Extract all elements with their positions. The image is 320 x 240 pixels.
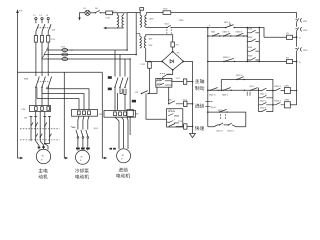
coil KM2 (reverse contactor) (285, 99, 297, 108)
svg-text:FR1: FR1 (22, 108, 27, 111)
wire rail G (jog loop) (208, 122, 246, 133)
svg-text:SQ1-A: SQ1-A (209, 94, 216, 97)
wire bridge DC- down (167, 70, 173, 75)
wire T3 bottom to bridge left (146, 48, 162, 61)
svg-text:SQ1-2: SQ1-2 (260, 93, 267, 96)
svg-text:b: b (299, 61, 301, 64)
transformer T2 (control) (140, 8, 154, 28)
contactor KM1 main contacts (24, 77, 52, 88)
switch SA2 (lamp switch) (90, 7, 106, 13)
contact KM1 (self-hold) (247, 27, 259, 32)
contact KS (speed relay) (135, 91, 157, 95)
svg-text:3~: 3~ (80, 159, 83, 162)
clutch YC3 (rapid) (178, 120, 193, 129)
svg-text:KM1: KM1 (157, 78, 162, 81)
svg-text:SA1-2: SA1-2 (168, 109, 175, 112)
wire rail C (208, 61, 297, 63)
wire ladder left rail (207, 28, 209, 127)
svg-text:FR2: FR2 (303, 29, 308, 32)
svg-text:2: 2 (222, 122, 224, 125)
wire bridge DC+ to clutch bus (183, 62, 192, 134)
svg-text:36V: 36V (148, 38, 152, 41)
svg-text:FU2: FU2 (61, 45, 66, 48)
wire box bottom to feed branch (168, 87, 170, 104)
svg-text:KS: KS (135, 91, 138, 94)
coil KM1 (forward contactor) (285, 84, 298, 93)
contact KM2 (self-hold) (247, 36, 259, 41)
fuse FU3 (clutch circuit fuse) (141, 62, 152, 94)
svg-text:VC: VC (177, 51, 180, 54)
contact KM3-2 (rail C) (223, 56, 235, 62)
relay contact FR1 (thermal NC) (295, 18, 308, 23)
rectifier bridge VC (161, 51, 184, 71)
ground (clutch circuit) (190, 134, 196, 138)
svg-text:KM1-4: KM1-4 (274, 100, 281, 103)
svg-text:FR3: FR3 (303, 49, 308, 52)
svg-text:SQ3: SQ3 (218, 109, 223, 112)
switch SQ1 (door interlock, on control rail) (165, 23, 208, 34)
fuse FU5 (control fuse) (163, 8, 171, 15)
thermal relay FR3 heater box (104, 111, 136, 118)
wire resistor drop (129, 59, 131, 135)
svg-text:EL: EL (84, 7, 87, 10)
svg-text:SA: SA (167, 121, 170, 124)
ground (lamp circuit) (78, 13, 85, 21)
svg-text:主电: 主电 (38, 168, 48, 175)
svg-text:KM1: KM1 (248, 27, 253, 30)
contact KM1-3 (222, 31, 231, 37)
svg-text:SQ-1: SQ-1 (250, 85, 256, 88)
wire T2 secondary to control rail (146, 27, 166, 29)
wire rail D (221, 80, 273, 112)
svg-text:FU: FU (176, 43, 179, 46)
svg-text:KM2-4: KM2-4 (274, 85, 281, 88)
clutch YC2 (feed) (183, 98, 194, 106)
PE distribution wire (18, 71, 103, 73)
svg-text:KM2: KM2 (157, 82, 162, 85)
wire FR2 to switch (78, 116, 89, 129)
wire three-phase branch lines (42, 47, 137, 59)
relay contact FR3 (thermal NC) (295, 47, 308, 52)
wire top bus (117, 12, 140, 14)
svg-text:SQ2-1: SQ2-1 (260, 100, 267, 103)
wire PE drop to M2 (64, 72, 67, 158)
svg-text:SB1-2: SB1-2 (224, 21, 231, 24)
svg-text:快速: 快速 (195, 125, 205, 132)
svg-text:动机: 动机 (38, 174, 48, 181)
svg-text:R1: R1 (136, 112, 140, 115)
contact SB4 (rail E with linkage) (244, 85, 258, 96)
svg-text:电动机: 电动机 (116, 173, 131, 180)
wire phase verticals to KM1 (36, 42, 48, 76)
svg-text:KM2: KM2 (248, 36, 253, 39)
svg-text:QS: QS (52, 29, 56, 32)
svg-text:主轴: 主轴 (195, 78, 205, 85)
contact SB3 (rail E) (222, 88, 232, 97)
svg-text:PE: PE (20, 10, 23, 13)
svg-text:FU: FU (286, 56, 289, 59)
svg-text:KM2-3: KM2-3 (235, 31, 242, 34)
svg-text:进给: 进给 (118, 167, 128, 174)
wire rail F (208, 112, 246, 127)
svg-text:24V: 24V (148, 44, 152, 47)
contact SQ2-A (rail D) (236, 74, 245, 80)
motor M2 (76, 149, 90, 164)
contact SQ1-A (rail E) (209, 88, 219, 97)
svg-text:220V: 220V (179, 19, 185, 22)
wire drops to M3 contactor (115, 50, 125, 77)
limit switch column (SQ contacts) (259, 88, 273, 112)
svg-text:3~: 3~ (41, 158, 44, 161)
fuse FU2 (three barrel fuses) (61, 45, 74, 60)
ground arrow (T1 secondary) (103, 27, 123, 29)
svg-text:M: M (81, 156, 83, 159)
contact SA1-1 (rapid) (167, 121, 184, 126)
svg-text:SQ1: SQ1 (165, 23, 170, 26)
contact KM2-3 (235, 31, 244, 37)
svg-text:FU3: FU3 (141, 63, 146, 66)
svg-text:KM1: KM1 (24, 78, 29, 81)
svg-text:SQ2-3: SQ2-3 (227, 129, 234, 132)
svg-text:KM2: KM2 (248, 55, 253, 58)
fuse FU6 (rectifier AC fuse) (171, 42, 179, 47)
svg-text:SA: SA (95, 7, 98, 10)
svg-text:KM2: KM2 (285, 99, 290, 102)
node L1 terminal (33, 14, 37, 20)
contact KM1-4 (272, 100, 284, 106)
fuse FU7 (286, 32, 293, 40)
svg-text:1: 1 (174, 118, 176, 121)
wire interlock column rails (247, 28, 259, 62)
fuse FU1 (three fuses) (34, 36, 55, 43)
wire rail D drop (220, 80, 222, 91)
svg-text:FR1: FR1 (303, 20, 308, 23)
reversing switch SA (M1 direction, dashed linkage) (20, 112, 60, 145)
svg-text:0: 0 (299, 37, 301, 40)
svg-text:电动机: 电动机 (75, 174, 90, 181)
wire KM1 to FR1 (36, 87, 48, 106)
switch QS2 (cooling pump plug switch) (71, 126, 99, 149)
svg-text:冷却泵: 冷却泵 (75, 168, 90, 175)
wire T3 secondary top to bridge fuse (146, 35, 173, 42)
svg-text:制动: 制动 (195, 85, 205, 92)
svg-text:FU5: FU5 (163, 8, 168, 11)
button SB2 (211, 31, 221, 37)
svg-text:KM1: KM1 (248, 46, 253, 49)
wire cascade to M2 contactor (37, 89, 89, 110)
fuse FU4 (106, 11, 113, 19)
svg-text:FR2: FR2 (99, 113, 104, 116)
wire verticals from top bus (127, 13, 136, 55)
svg-text:YC3: YC3 (178, 120, 183, 123)
wire rail E (208, 89, 259, 91)
wire box to KS rail (156, 87, 158, 93)
svg-text:SQ1-3: SQ1-3 (216, 129, 223, 132)
wire feed drop (146, 94, 167, 120)
svg-text:FU1: FU1 (51, 38, 56, 41)
wire to motor M1 (36, 141, 48, 150)
svg-text:M: M (42, 155, 44, 158)
contact KM3 (feed clutch) (168, 98, 184, 104)
svg-text:SQ-6: SQ-6 (211, 106, 217, 109)
lamp EL (84, 7, 91, 15)
node L2 terminal (40, 14, 44, 20)
transformer T3 (rectifier supply) (136, 34, 153, 49)
switch QS1 (3-pole isolator) (36, 20, 56, 36)
svg-text:YC1: YC1 (176, 77, 181, 80)
wire ladder top rail (208, 28, 264, 38)
motor M3 (117, 149, 131, 163)
wire PE drop to M3 (102, 72, 106, 158)
svg-text:a: a (209, 24, 211, 27)
contact KM4 (interlock) (247, 55, 259, 60)
wire fuse to transformer T1 (112, 13, 117, 15)
PE bus (left ground bus with up arrow) (16, 9, 23, 159)
svg-text:SQ2-A: SQ2-A (236, 74, 243, 77)
svg-text:SQ2-2: SQ2-2 (260, 106, 267, 109)
terminal marks M3 (110, 148, 113, 150)
svg-text:SA: SA (24, 117, 27, 120)
svg-text:M: M (122, 154, 124, 157)
wire rail B (208, 35, 248, 37)
svg-text:SA1: SA1 (94, 127, 99, 130)
wire fuse to bridge top (172, 47, 174, 52)
contact KM1-2 (brake feed) (160, 73, 174, 78)
svg-text:KM3-2: KM3-2 (223, 56, 230, 59)
thermal relay FR2 heater box (72, 110, 104, 117)
svg-text:3~: 3~ (121, 158, 124, 161)
contact SQ3 (rail F with linkage dashes) (218, 109, 228, 119)
contact box (brake clutch contacts) (156, 78, 172, 87)
svg-text:KM: KM (168, 98, 171, 101)
motor M1 (36, 149, 50, 163)
svg-text:SB3-2: SB3-2 (222, 94, 229, 97)
node a (207, 27, 209, 29)
svg-text:KM1-3: KM1-3 (222, 31, 229, 34)
node L3 terminal (46, 14, 50, 20)
svg-text:KM1-2: KM1-2 (167, 73, 174, 76)
svg-text:FU4: FU4 (106, 16, 111, 19)
selector switch SA1 box (dashed linkage) (167, 109, 183, 127)
contact KM3 (interlock) (247, 46, 259, 51)
resistor R (127, 100, 139, 117)
svg-text:L3: L3 (46, 14, 49, 17)
fuse FU8 (286, 56, 301, 63)
wire FR3 to motor M3 (115, 117, 128, 149)
relay contact FR2 (thermal NC) (295, 27, 308, 32)
button SB1 (stop, on top rail) (224, 21, 235, 29)
svg-text:SB2: SB2 (211, 31, 216, 34)
switch marks on left rail (199, 102, 216, 109)
svg-text:L1: L1 (33, 14, 36, 17)
contactor KM3 contacts (feed motor, with loop) (108, 76, 128, 110)
wire right return bus (296, 22, 298, 105)
wire fused tap upper (264, 36, 297, 38)
clutch YC1 (spindle brake) (172, 77, 193, 84)
contact KM2-4 (272, 85, 284, 91)
transformer T1 (lighting) (113, 10, 123, 28)
svg-text:L2: L2 (40, 14, 43, 17)
thermal relay FR1 heater box (22, 106, 51, 112)
svg-text:KM1: KM1 (285, 84, 290, 87)
svg-text:110V: 110V (148, 18, 153, 21)
svg-text:FU: FU (286, 32, 289, 35)
